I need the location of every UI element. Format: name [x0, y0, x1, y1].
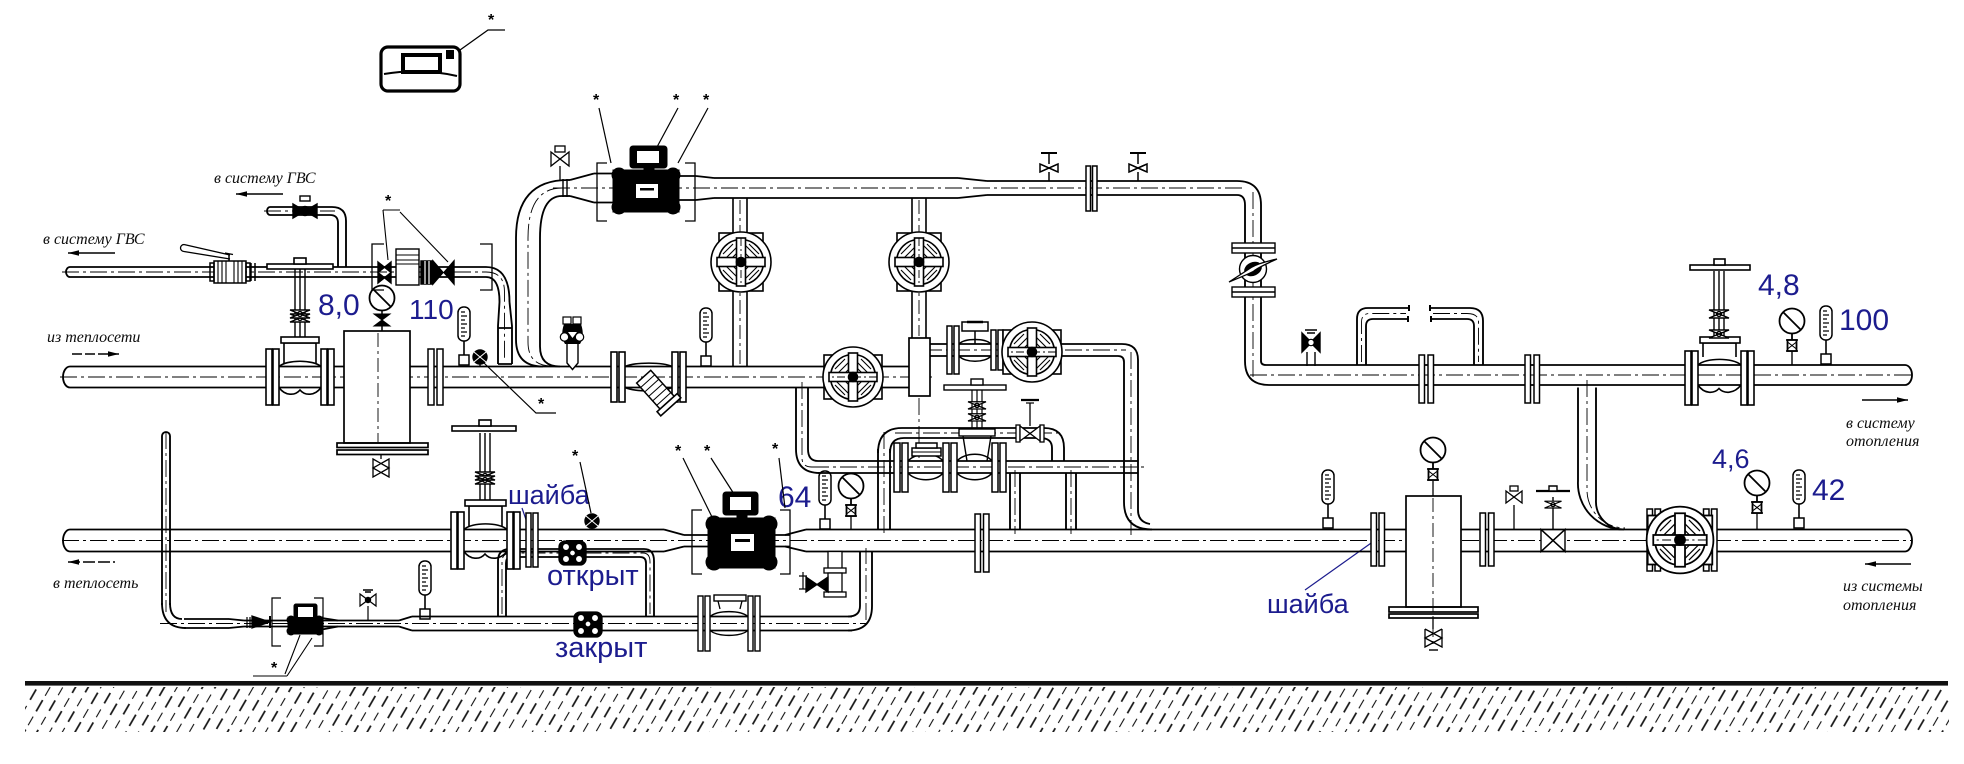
handwheel valve W4 on upper line — [1002, 322, 1062, 382]
svg-text:закрыт: закрыт — [555, 632, 647, 664]
svg-text:в систему ГВС: в систему ГВС — [43, 231, 145, 248]
leader and star for icon — [460, 30, 505, 50]
pipe: otkryt loop right riser — [640, 549, 654, 617]
centerline: drop D3 — [1014, 470, 1016, 534]
svg-text:100: 100 — [1839, 304, 1889, 337]
pipe: top line narrow section — [987, 180, 1237, 182]
gate valve V1 on supply main — [266, 258, 334, 405]
svg-text:4,6: 4,6 — [1712, 444, 1750, 474]
flange pair on return main — [975, 514, 989, 572]
ball valve with lever on GVS main — [181, 245, 251, 284]
gate valve V3 on right main — [1685, 259, 1754, 405]
DHW stub top cap — [162, 432, 170, 436]
pipe: GVS branch walls — [270, 206, 332, 208]
otkryt valve on loop — [559, 541, 586, 565]
brackets around FM2 — [597, 163, 695, 221]
butterfly valve with lever on right vertical — [1229, 243, 1277, 297]
globe valve on return right — [1536, 486, 1570, 552]
pipe: otkryt loop left riser — [498, 549, 512, 617]
arrow right above v sistemu otopleniya — [1862, 397, 1908, 403]
return main left cap — [63, 530, 70, 552]
flow meter FM2 (black) on top line — [612, 146, 680, 214]
ground line — [25, 681, 1948, 686]
svg-text:в систему ГВС: в систему ГВС — [214, 170, 316, 187]
pipe: top line wide section — [714, 177, 958, 179]
dirt trap 2 on return main — [1389, 496, 1478, 650]
top line reducer — [958, 178, 987, 198]
svg-text:*: * — [673, 92, 680, 109]
DHW stub elbow to bypass line — [162, 603, 186, 628]
svg-text:42: 42 — [1812, 474, 1845, 507]
brackets around FM1 — [272, 598, 323, 646]
elbow into right supply main — [1245, 361, 1269, 385]
upper line elbow down — [1118, 344, 1138, 362]
zakryt valve on bypass — [574, 612, 602, 637]
svg-text:в теплосеть: в теплосеть — [53, 575, 138, 592]
pressure gauge above dirt trap — [370, 286, 395, 332]
pipe: GVS elbow down to pot on supply main — [486, 267, 510, 302]
svg-text:*: * — [675, 443, 682, 460]
pipe: otkryt loop top — [510, 548, 644, 550]
pipe: drop D3 sub-line to return main — [1010, 473, 1020, 530]
top line taper out of meter — [679, 176, 714, 200]
pipe: bypass thin line — [184, 618, 229, 620]
centerline: right supply main — [1250, 374, 1912, 376]
handwheel valve W1 — [711, 232, 771, 292]
centerline: top line — [553, 187, 1245, 189]
svg-text:4,8: 4,8 — [1758, 269, 1800, 302]
pressure regulator on upper line — [947, 322, 1003, 374]
flange pair on supply main after dirt trap — [428, 349, 443, 405]
svg-text:из теплосети: из теплосети — [47, 329, 140, 346]
pipe: sub-line walls — [818, 460, 1138, 462]
centerline: right drop sweep — [1587, 380, 1625, 528]
pipe: bypass narrow at meter — [244, 620, 288, 622]
centerline: drop D1 — [802, 382, 812, 467]
pipe: return main (v teploset) walls — [70, 529, 664, 531]
svg-text:шайба: шайба — [508, 480, 591, 510]
taper out of meter on bypass — [322, 618, 338, 630]
leader and star for water meter — [383, 210, 448, 262]
arrow left under left GVS label — [68, 250, 115, 256]
pressure tap on supply main with leader — [473, 350, 487, 367]
centerline: big vertical — [1130, 352, 1132, 535]
pressure gauge on return right end — [1745, 471, 1770, 514]
svg-text:110: 110 — [409, 294, 454, 325]
thin bypass right elbow down — [1040, 428, 1064, 461]
centerline: top line right vertical — [1252, 192, 1254, 378]
pressure tap on return main with leader — [585, 514, 599, 530]
air vent valve on riser bend — [551, 146, 569, 180]
svg-text:*: * — [593, 92, 600, 109]
GVS branch elbow down — [330, 207, 346, 267]
flanged check valve on bypass wide line — [698, 595, 760, 651]
pipe: drop D1 from supply main to sub-line — [796, 388, 820, 474]
condensate pot on supply main — [498, 302, 512, 364]
small globe valve SG1 on top line — [1040, 153, 1058, 181]
handwheel valve W2 — [889, 232, 949, 292]
brackets around FM3 — [692, 510, 790, 574]
orifice flange on top line — [1086, 166, 1097, 211]
supply main left cap — [63, 367, 70, 388]
orifice flange right (shayba) — [1371, 513, 1385, 566]
pipe: thin bypass over regulator — [902, 427, 1044, 429]
centerline: GVS branch — [264, 210, 335, 212]
water meter on GVS main — [378, 249, 454, 285]
centerline: column sensing line — [918, 398, 920, 458]
centerline: bypass right riser — [865, 548, 867, 620]
pressure gauge on right main — [1780, 309, 1805, 352]
return main right section — [806, 529, 1905, 531]
leaders and stars for FM3 — [683, 458, 785, 517]
bypass elbow up to return main at right — [848, 552, 872, 631]
leader from shayba left to orifice — [522, 508, 531, 534]
safety valve under return main — [799, 552, 846, 598]
GVS branch left cap — [267, 207, 270, 215]
pressure gauge above dirt trap 2 — [1421, 438, 1446, 481]
pipe: drop from right main to return main (sweep) — [1578, 388, 1624, 530]
drain valve on bypass line — [360, 590, 376, 620]
svg-text:из системы: из системы — [1843, 578, 1923, 595]
pipe: dismantling stub left (open end) — [1357, 308, 1409, 365]
pipe: right supply main walls — [1266, 364, 1905, 366]
pipe: GVS main walls — [70, 266, 486, 268]
centerline: drop D4 — [1070, 470, 1072, 534]
thermometer on return right end — [1793, 470, 1805, 528]
thermometer on bypass line — [419, 561, 431, 619]
centerline: bypass line — [160, 623, 866, 625]
handwheel valve W3 on supply main — [823, 347, 883, 407]
heat computer icon — [381, 47, 460, 91]
return main narrow section through meter — [684, 534, 790, 536]
thermometer on supply main left — [458, 307, 470, 365]
flow meter FM3 (black) on return main — [706, 492, 777, 570]
svg-text:*: * — [538, 396, 545, 413]
big control valve on sub-line — [894, 443, 1006, 492]
pressure gauge on return main at meter — [839, 474, 864, 517]
pipe: big vertical from upper line to return main — [1124, 360, 1152, 530]
pipe: drop D4 sub-line to return main — [1066, 473, 1076, 530]
ball valve on GVS branch — [293, 196, 317, 218]
svg-text:*: * — [271, 660, 278, 677]
centerline: drop D2 — [883, 432, 885, 534]
return main right cap — [1905, 530, 1912, 552]
relief valve on supply main — [560, 317, 583, 370]
centerline: return main — [62, 540, 1912, 542]
bypass taper 1 — [229, 619, 244, 628]
flange pair on return right — [1480, 513, 1494, 566]
GVS main left cap — [66, 267, 70, 277]
thermometer on right main — [1820, 306, 1832, 364]
thin bypass left elbow up — [878, 428, 904, 453]
svg-text:*: * — [572, 448, 579, 465]
top line taper into meter — [570, 174, 613, 203]
svg-text:отопления: отопления — [1843, 597, 1916, 614]
pipe: regulator upper line from column — [930, 343, 1122, 345]
svg-text:шайба: шайба — [1267, 589, 1350, 619]
flange pair on right main 2 — [1525, 355, 1540, 403]
svg-text:*: * — [385, 193, 392, 210]
pipe: riser from supply main to top line — [516, 180, 568, 367]
centerline: otkryt loop — [502, 553, 650, 614]
return main taper out — [785, 530, 806, 552]
header column — [909, 338, 930, 396]
brackets around water meter — [372, 244, 492, 290]
pipe: drop D2 thin-bypass left leg down to return main — [878, 449, 890, 530]
pipe: dismantling stub right (open end) — [1430, 308, 1483, 365]
arrow left under upper GVS label — [236, 191, 283, 197]
svg-text:64: 64 — [778, 481, 811, 514]
svg-text:отопления: отопления — [1846, 433, 1919, 450]
centerline: regulator upper line — [925, 349, 1126, 351]
return main taper into meter section — [664, 530, 684, 552]
pipe: top line to flow meter — [568, 179, 570, 181]
svg-text:*: * — [488, 12, 495, 29]
thermometer on return main at meter — [819, 471, 831, 529]
flow meter FM1 (black) on bypass line — [287, 604, 323, 635]
svg-text:в систему: в систему — [1846, 415, 1916, 432]
union ticks on GVS main — [251, 263, 255, 281]
leader from shayba right to orifice — [1305, 541, 1374, 590]
leaders and star for FM1 — [253, 635, 312, 676]
centerline: riser — [528, 188, 562, 366]
handwheel valve W5 on return main (large) — [1647, 507, 1717, 574]
union ticks at riser top — [563, 179, 567, 197]
centerline: DHW stub — [165, 432, 167, 612]
right supply main cap — [1905, 365, 1912, 385]
small globe valve on thin bypass — [1016, 400, 1044, 442]
small relief valve on right main — [1302, 330, 1320, 366]
pipe: bypass wide section — [412, 616, 852, 618]
flange pair on right main 1 — [1419, 355, 1434, 403]
small globe valve SG2 on top line — [1129, 153, 1147, 181]
centerline: GVS main — [62, 272, 505, 360]
pipe: DHW stub vertical (left bottom) — [162, 436, 170, 605]
pipe: supply main (iz teploseti) walls — [70, 366, 910, 368]
ground hatch — [25, 687, 1949, 732]
thermometer on supply main — [700, 308, 712, 366]
centerline: supply main — [60, 376, 932, 378]
centerline: dismantling stubs — [1362, 314, 1479, 363]
vertical pipe to wheel valve W2 — [912, 198, 926, 338]
small valve on return right — [1506, 486, 1522, 529]
thermometer on return right — [1322, 470, 1334, 528]
leaders and stars for FM2 — [599, 108, 708, 163]
vertical pipe to wheel valve W1 — [733, 198, 747, 367]
arrow left under v teploset — [68, 559, 115, 565]
arrow left above iz sistemy otopleniya — [1865, 561, 1911, 567]
bypass taper widening — [399, 617, 412, 631]
svg-text:8,0: 8,0 — [318, 289, 360, 322]
orifice flange (shayba) on return main — [526, 513, 538, 567]
centerline: sub-line — [812, 466, 1145, 468]
arrow right under iz teploseti — [72, 351, 119, 357]
Y-strainer on supply main — [611, 352, 686, 416]
svg-text:открыт: открыт — [547, 560, 639, 592]
centerline: thin bypass — [895, 432, 1058, 434]
svg-text:*: * — [772, 441, 779, 458]
gate valve above sub-line (on thin bypass) — [944, 379, 1006, 461]
gate valve V2 on return main — [451, 420, 520, 569]
svg-text:*: * — [704, 443, 711, 460]
dirt trap (gryazevik) on supply main — [337, 331, 428, 477]
top line elbow down at right — [1237, 181, 1261, 361]
svg-text:*: * — [703, 92, 710, 109]
check valve on bypass thin line — [247, 616, 270, 628]
